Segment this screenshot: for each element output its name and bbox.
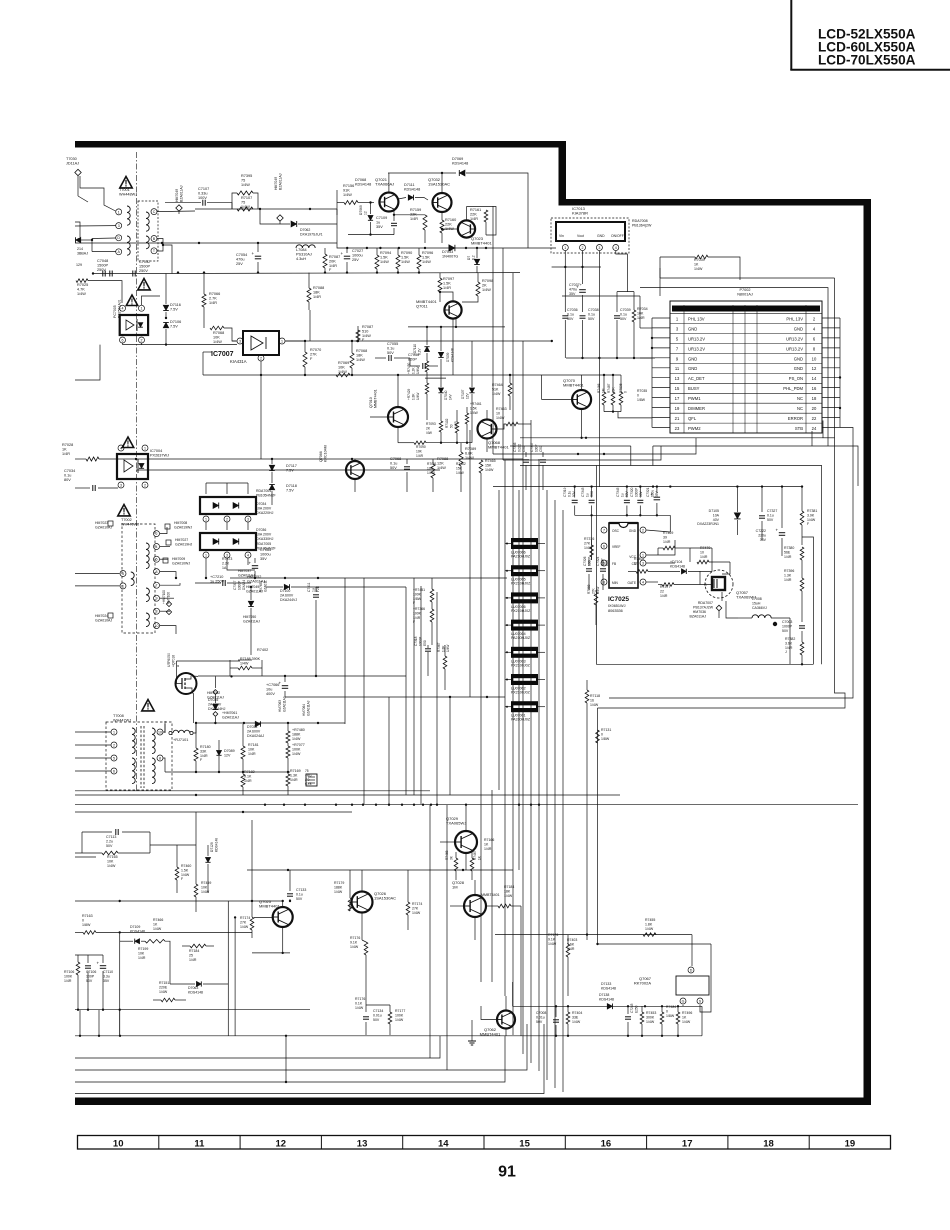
resistor R7089	[459, 443, 476, 492]
resistor R7039	[660, 255, 740, 296]
svg-text:VREF: VREF	[612, 545, 621, 549]
resistor R7178	[355, 997, 365, 1010]
svg-text:20: 20	[812, 406, 817, 411]
wire rail y243	[75, 242, 337, 244]
resistor R7096	[417, 248, 433, 273]
diode D7063	[170, 981, 228, 994]
svg-text:3: 3	[118, 224, 120, 228]
zener D7106	[163, 317, 181, 346]
resistor R7070	[303, 341, 321, 375]
capacitor C7048	[92, 259, 120, 277]
capacitor C7133	[287, 870, 306, 902]
wire right region boundary	[598, 278, 846, 944]
diode D7062	[260, 209, 337, 236]
ferrite bead LU07003 4	[505, 647, 545, 668]
svg-text:24: 24	[812, 426, 817, 431]
wire x337 drop	[336, 209, 338, 243]
wire main rail y209	[195, 208, 337, 210]
wire T7002 left leads	[75, 574, 120, 586]
resistor R7465	[479, 459, 495, 490]
capacitor C7318	[414, 636, 431, 676]
svg-text:15: 15	[675, 386, 680, 391]
wire T7002 right leads	[160, 527, 180, 634]
svg-text:GND: GND	[794, 356, 803, 361]
node HM7023	[95, 521, 113, 529]
wire T7001 secondary	[157, 211, 195, 274]
vertical label HM7063	[278, 696, 310, 716]
resistor R7034	[632, 307, 647, 358]
warning triangle T7008	[142, 700, 154, 712]
resistor R7380	[784, 546, 804, 578]
ferrite bead LU07006 0	[505, 538, 545, 559]
wire rail y273	[166, 271, 520, 273]
svg-text:PA310HJ0Z: PA310HJ0Z	[511, 718, 531, 722]
svg-text:18: 18	[812, 396, 817, 401]
svg-text:G: G	[704, 583, 707, 587]
svg-text:13: 13	[675, 376, 680, 381]
svg-text:19: 19	[675, 406, 680, 411]
node HM7027	[166, 538, 193, 546]
svg-text:7: 7	[603, 528, 605, 532]
wire bottom rail y1035	[513, 982, 702, 1037]
rectifier D7034	[200, 483, 276, 530]
resistor R7066	[202, 271, 220, 328]
svg-text:Vin: Vin	[559, 234, 564, 238]
capacitor C7107	[165, 187, 232, 209]
capacitor C7008	[536, 1006, 559, 1036]
svg-text:1: 1	[144, 446, 146, 450]
svg-text:STB: STB	[795, 426, 803, 431]
svg-text:3: 3	[239, 339, 241, 343]
diode D7138	[599, 993, 614, 1009]
svg-text:15: 15	[519, 1138, 530, 1149]
resistor R7468 pair	[445, 850, 481, 880]
capacitor C7034	[64, 469, 118, 491]
resistor R7090b	[398, 441, 426, 458]
svg-text:Vout: Vout	[577, 234, 584, 238]
transformer T7008	[106, 714, 172, 790]
capacitor C7134 resistor R7177	[363, 1005, 405, 1035]
svg-text:!: !	[131, 297, 134, 306]
wire P7002 right stubs	[822, 318, 840, 428]
resistor R7161	[467, 207, 497, 236]
svg-text:PS_ON: PS_ON	[789, 376, 803, 381]
resistor R7086b	[356, 325, 373, 342]
svg-text:4: 4	[642, 580, 644, 584]
capacitor C7221	[646, 487, 660, 516]
svg-text:129: 129	[76, 263, 82, 267]
wire rail y442.7	[426, 410, 472, 444]
resistor R7377	[658, 571, 712, 597]
svg-text:C: C	[153, 210, 156, 214]
resistor R7176	[350, 936, 368, 1012]
resistor R7469	[658, 531, 690, 555]
wire rail y378	[425, 377, 446, 379]
capacitor C7345	[616, 487, 630, 516]
resistor R7381	[800, 487, 817, 545]
capacitor C7027	[341, 248, 364, 273]
svg-text:!: !	[125, 179, 128, 189]
svg-text:UR13.2V: UR13.2V	[688, 346, 705, 351]
wire IC7025 supply rail y514	[574, 485, 672, 516]
wire bottom mid rails	[495, 933, 692, 945]
ferrite bead LU07005 1	[505, 565, 545, 586]
capacitor C7311	[307, 582, 320, 676]
svg-text:+: +	[776, 528, 779, 533]
ferrite bead LU07002 5	[505, 674, 545, 695]
resistor R7035	[619, 375, 627, 412]
wire bus y795-812	[75, 794, 858, 813]
zener D7112	[467, 247, 480, 273]
svg-text:3: 3	[122, 572, 124, 576]
svg-text:PWM1: PWM1	[688, 396, 701, 401]
svg-text:10: 10	[812, 356, 817, 361]
resistor R7451	[413, 578, 434, 605]
transistor Q7068	[478, 410, 510, 452]
svg-text:4: 4	[247, 553, 249, 557]
zener D7059	[348, 201, 394, 236]
svg-text:PWM2: PWM2	[688, 426, 701, 431]
svg-text:10: 10	[155, 624, 159, 628]
resistor R7169	[286, 769, 301, 795]
resistor R7461	[465, 402, 482, 443]
diode HM7062	[207, 676, 224, 699]
svg-text:9: 9	[156, 597, 158, 601]
svg-text:R97651GZA011: R97651GZA011	[259, 580, 267, 592]
wire component rail y486.6	[493, 485, 803, 487]
capacitor C7326	[583, 556, 592, 590]
resistor R7118	[585, 680, 600, 940]
svg-text:17: 17	[682, 1138, 693, 1149]
resistor R7068	[350, 341, 367, 375]
node HM7100	[162, 590, 172, 615]
resistor R7025	[76, 279, 122, 303]
wire rail y375	[203, 374, 621, 376]
capacitor C7109	[376, 216, 397, 229]
resistor R7038	[604, 389, 652, 418]
svg-text:GND: GND	[794, 326, 803, 331]
svg-text:PA210HJ0Z: PA210HJ0Z	[511, 555, 531, 559]
svg-text:!: !	[147, 702, 150, 712]
diode D7039	[438, 327, 454, 378]
diode D7105	[697, 487, 740, 535]
wire vert x228	[228, 901, 236, 1036]
svg-text:!: !	[127, 439, 130, 448]
svg-text:+: +	[97, 961, 100, 966]
svg-text:+: +	[279, 681, 282, 686]
svg-text:D: D	[117, 236, 120, 240]
svg-text:8: 8	[156, 610, 158, 614]
svg-text:14: 14	[438, 1138, 449, 1149]
wire IC7025 box bottom	[597, 466, 814, 665]
svg-text:C73261000P: C73261000P	[583, 556, 591, 566]
svg-text:PX2100J0Z: PX2100J0Z	[511, 691, 531, 695]
wire misc long 2	[310, 310, 453, 375]
wire Q7025 emitter	[252, 952, 290, 954]
svg-text:10: 10	[158, 730, 162, 734]
wire bottom left rails	[75, 857, 516, 1036]
warning triangle PC7005	[126, 295, 137, 306]
resistor R7429	[407, 378, 429, 410]
capacitor C7003	[782, 610, 805, 640]
capacitor C7222	[756, 487, 786, 556]
resistor R7496	[676, 1006, 692, 1036]
mosfet Q7016	[167, 653, 198, 723]
svg-text:1: 1	[113, 730, 115, 734]
diode D7038	[247, 721, 264, 738]
transistor Q7066	[319, 445, 364, 492]
wire PC7005 leads	[75, 296, 237, 380]
capacitor C7066	[266, 676, 288, 697]
mosfet Q7057	[704, 562, 756, 618]
diode D7033	[442, 245, 458, 259]
ferrite bead LU07006 2	[505, 592, 545, 613]
svg-text:PHL_PDM: PHL_PDM	[783, 386, 803, 391]
svg-text:4: 4	[122, 307, 124, 311]
svg-text:UR13.2V: UR13.2V	[786, 336, 803, 341]
wire big loop top	[520, 466, 822, 665]
vertical labels cluster D7100	[233, 580, 267, 592]
center chain line	[136, 152, 138, 792]
transistor Q7029	[440, 805, 494, 870]
diode D7109	[120, 918, 170, 984]
svg-text:R7402: R7402	[257, 648, 268, 652]
svg-text:PX210HJ0Z: PX210HJ0Z	[511, 609, 531, 613]
svg-text:22: 22	[812, 416, 817, 421]
capacitor C7110	[75, 955, 113, 1010]
svg-text:+: +	[252, 251, 255, 256]
resistor R7396	[784, 569, 804, 610]
wire rail y724	[195, 722, 345, 724]
svg-text:AC_DET: AC_DET	[688, 376, 705, 381]
resistor R7106	[64, 955, 80, 1010]
svg-text:!: !	[123, 507, 126, 517]
wire Q7011 emitter rail	[408, 317, 505, 328]
svg-text:17: 17	[675, 396, 680, 401]
wire T7001 left leads	[75, 176, 116, 226]
resistor R7199	[138, 947, 148, 960]
ferrite bead LU07004 3	[505, 620, 545, 641]
capacitor C7032	[120, 260, 166, 277]
diode D7214	[76, 237, 93, 267]
svg-text:1: 1	[205, 517, 207, 521]
node HM7009b	[163, 557, 190, 565]
svg-text:PA210HJ0Z: PA210HJ0Z	[511, 636, 531, 640]
svg-text:GND: GND	[629, 529, 637, 533]
capacitor C7210	[195, 575, 251, 586]
resistor R7077	[286, 743, 305, 772]
node HM7037	[222, 557, 255, 577]
svg-text:11: 11	[675, 366, 680, 371]
svg-text:2: 2	[260, 356, 262, 360]
svg-text:+: +	[249, 561, 252, 566]
svg-text:2: 2	[141, 338, 143, 342]
resistor R7184c	[486, 885, 521, 908]
resistor R7165	[75, 845, 196, 868]
wire rail y772	[165, 771, 290, 773]
resistor R7484	[660, 1005, 676, 1036]
wire opto to rails	[203, 352, 212, 375]
ground bottom	[468, 1020, 476, 1045]
node HM7008	[165, 521, 192, 529]
resistor R7487	[607, 375, 615, 412]
resistor R7460	[175, 845, 191, 893]
svg-text:ON/OFF: ON/OFF	[611, 234, 624, 238]
node HM7045	[175, 185, 183, 214]
wire rail y676	[198, 675, 406, 677]
capacitor C7038	[580, 308, 599, 358]
svg-text:2: 2	[113, 743, 115, 747]
capacitor C7036	[562, 308, 577, 358]
diode D7035	[208, 694, 226, 711]
capacitor C7243	[625, 1003, 638, 1035]
svg-text:GND: GND	[597, 234, 605, 238]
resistor R7098	[462, 273, 493, 302]
transistor Q7070	[542, 375, 592, 438]
resistor R7403	[566, 935, 577, 996]
wire spine verticals	[481, 206, 563, 1092]
svg-text:GND: GND	[688, 366, 697, 371]
node HM7024	[95, 613, 113, 622]
diode D7104	[670, 548, 712, 574]
svg-text:+RJ7101: +RJ7101	[173, 738, 188, 742]
wire rail y578 HM7052	[230, 575, 507, 583]
svg-text:PX2100J0Z: PX2100J0Z	[511, 663, 531, 667]
wire rail y248	[337, 243, 556, 249]
svg-text:16: 16	[812, 386, 817, 391]
svg-text:C73171000PDXA24: C73171000PDXA24	[233, 580, 246, 590]
resistor R7376	[584, 537, 594, 560]
svg-text:6: 6	[603, 544, 605, 548]
svg-text:8: 8	[159, 756, 161, 760]
title block	[790, 0, 950, 70]
wire misc long 1	[120, 375, 261, 1036]
wire T7001 D-A leads	[75, 222, 116, 252]
svg-text:LCD-70LX550A: LCD-70LX550A	[818, 53, 916, 68]
svg-text:MIN: MIN	[612, 581, 619, 585]
resistor R7480	[286, 724, 305, 746]
resistor R7367	[437, 642, 450, 690]
svg-text:19: 19	[845, 1138, 856, 1149]
inductor L7084	[296, 245, 315, 261]
transistor Q7062	[480, 996, 515, 1036]
wire left-mid long verticals	[345, 430, 470, 805]
capacitor C7037	[569, 283, 586, 312]
regulator IC7013	[551, 206, 652, 253]
capacitor C7054	[236, 243, 261, 273]
resistor R7466	[597, 375, 606, 412]
wire nested bus lines	[75, 1010, 544, 1094]
zener D7117	[269, 459, 297, 483]
transistor Q7025	[254, 899, 293, 953]
resistor R7151	[153, 981, 186, 1002]
svg-text:UR13.2V: UR13.2V	[786, 346, 803, 351]
label R7091 R7462	[427, 462, 466, 475]
resistor R7383	[587, 584, 600, 625]
resistor R7395 R7107 pair	[232, 174, 258, 211]
capacitor C7065	[249, 548, 272, 578]
inductor L7008	[738, 597, 790, 626]
transformer T7002	[120, 518, 160, 633]
resistor R7087	[323, 248, 340, 273]
svg-text:16: 16	[601, 1138, 612, 1149]
resistor R7094	[375, 248, 391, 273]
resistor R7069b	[336, 361, 350, 377]
capacitor C7346	[513, 442, 529, 490]
wire IC7013 gnd rail	[566, 357, 655, 359]
svg-text:IC7025: IC7025	[608, 596, 629, 603]
resistor R7159	[410, 208, 427, 243]
svg-text:2: 2	[226, 517, 228, 521]
wire bus y788	[75, 790, 430, 792]
wire right vert pair bottom	[430, 805, 447, 1070]
transistor Q7023	[441, 220, 493, 245]
svg-text:PHL 13V: PHL 13V	[688, 317, 705, 322]
svg-text:+HM7061GZA011AJ: +HM7061GZA011AJ	[222, 711, 239, 719]
svg-text:6: 6	[113, 769, 115, 773]
resistor R7185	[548, 933, 558, 946]
transformer T7001	[116, 188, 158, 261]
resistor R7156	[337, 184, 374, 215]
svg-text:23: 23	[675, 426, 680, 431]
svg-text:QFL: QFL	[688, 416, 697, 421]
capacitor C7039	[614, 308, 631, 358]
warning triangle T7002	[118, 505, 130, 517]
resistor R7180	[194, 724, 211, 772]
node HM7036	[690, 605, 722, 618]
capacitor C7113	[82, 829, 150, 853]
node HM7049	[274, 173, 283, 224]
svg-text:4: 4	[156, 545, 158, 549]
resistor R7085	[307, 273, 324, 310]
svg-text:G: G	[682, 999, 685, 1003]
transistor Q7010	[369, 375, 408, 443]
resistor R7069	[210, 326, 237, 344]
trimmer RG7001	[305, 769, 317, 786]
svg-text:1: 1	[122, 584, 124, 588]
svg-text:3: 3	[642, 561, 644, 565]
svg-text:7: 7	[156, 584, 158, 588]
warning triangle C7032	[138, 279, 150, 291]
capacitor C7056	[408, 353, 438, 369]
resistor R7097	[438, 273, 454, 302]
svg-text:8: 8	[156, 570, 158, 574]
diode D7100	[266, 584, 406, 676]
wire bottom rail y1004	[513, 1005, 702, 1007]
svg-text:4: 4	[615, 246, 617, 250]
svg-text:UR13.2V: UR13.2V	[688, 336, 705, 341]
zener D7118	[269, 484, 297, 505]
svg-text:PX210HJ0Z: PX210HJ0Z	[511, 582, 531, 586]
wire nested above table	[640, 268, 835, 446]
diode D7069 KDS4148	[452, 157, 528, 248]
resistor R7088c	[431, 457, 448, 492]
resistor R7090	[396, 248, 412, 273]
wire P7002 left stubs	[640, 318, 670, 428]
diode D7111	[398, 183, 428, 200]
resistor R7455	[643, 918, 692, 966]
capacitor C7327	[759, 487, 777, 540]
svg-text:14: 14	[812, 376, 817, 381]
capacitor C7319	[563, 487, 578, 516]
resistor R7182	[241, 770, 255, 795]
svg-text:6: 6	[122, 338, 124, 342]
svg-text:11: 11	[194, 1138, 205, 1149]
svg-text:13: 13	[357, 1138, 368, 1149]
svg-text:KIA431A: KIA431A	[230, 359, 247, 364]
svg-text:D: D	[690, 968, 693, 972]
zener D7110	[413, 327, 430, 355]
